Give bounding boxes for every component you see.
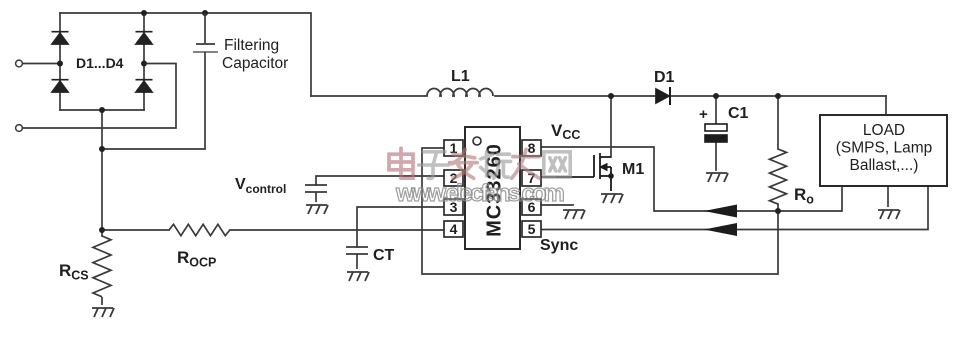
inductor L1 [427,89,493,96]
wire LOAD gnd stub [887,186,889,207]
wire rocp node [102,229,169,231]
resistor Rcs [93,236,111,297]
capacitor CT [346,247,368,269]
ground Rcs [92,308,114,317]
wire pin8 vcc [540,147,842,211]
wire pin1 feedback [422,148,778,274]
node junction dots [141,10,147,16]
pin 4 [444,221,463,237]
node pin1 indicator [473,137,481,145]
pin 7 [522,170,541,186]
diode bridge bottom-left [52,80,69,92]
resistor Ro [770,149,787,204]
diode bridge top-right [136,32,153,44]
wire vcontrol to pin2 [316,176,444,185]
ground CT [347,272,369,281]
wire bridge right column [143,13,145,110]
wire ro bottom [777,204,779,211]
pin 6 [522,199,541,215]
wire pin6 gnd [540,204,573,206]
wire pin5 sync [540,186,928,230]
wire ac input top [23,63,60,65]
LOAD box [820,115,947,186]
wire pin7 gate [540,176,556,178]
wire main rail y=96 [311,95,427,97]
node AC terminal 2 [16,125,23,132]
watermark url [396,182,956,206]
ground LOAD [878,210,900,219]
pin 8 [522,140,541,156]
arrow feedback upper [704,205,737,218]
transistor M1 [556,153,611,191]
wire mid to right riser [23,64,176,129]
pin 3 [444,199,463,215]
ground M1 [601,194,623,203]
wire filter cap bottom [102,148,205,150]
wire top rail [60,13,311,96]
wire pin3 to CT [357,207,444,247]
wire c1 stub [715,96,717,123]
wire bridge bottom rail [60,109,144,111]
capacitor Vcontrol [305,185,327,202]
arrow feedback lower [704,223,737,236]
node AC terminal 1 [16,60,23,67]
wire m1 drain riser [610,96,612,157]
pin 2 [444,170,463,186]
op-amp U1 IC MC33260 body [465,127,520,249]
wire bridge left column [59,13,61,110]
resistor Rocp [169,224,230,235]
ground vcontrol [306,205,328,214]
ground pin6 [563,210,585,219]
caption bottom (clipped) [376,344,676,348]
capacitor C1 [705,124,727,142]
capacitor Filtering [193,13,218,149]
pin 5 [522,221,541,237]
pin 1 [444,140,463,156]
ground C1 [706,173,728,182]
diode bridge D1...D4 top-left [52,32,69,44]
ground symbols [92,173,900,317]
wire bridge negative drop [101,110,103,236]
diode bridge bottom-right [136,80,153,92]
wire ro top [777,96,779,149]
diode D1 [656,87,670,105]
